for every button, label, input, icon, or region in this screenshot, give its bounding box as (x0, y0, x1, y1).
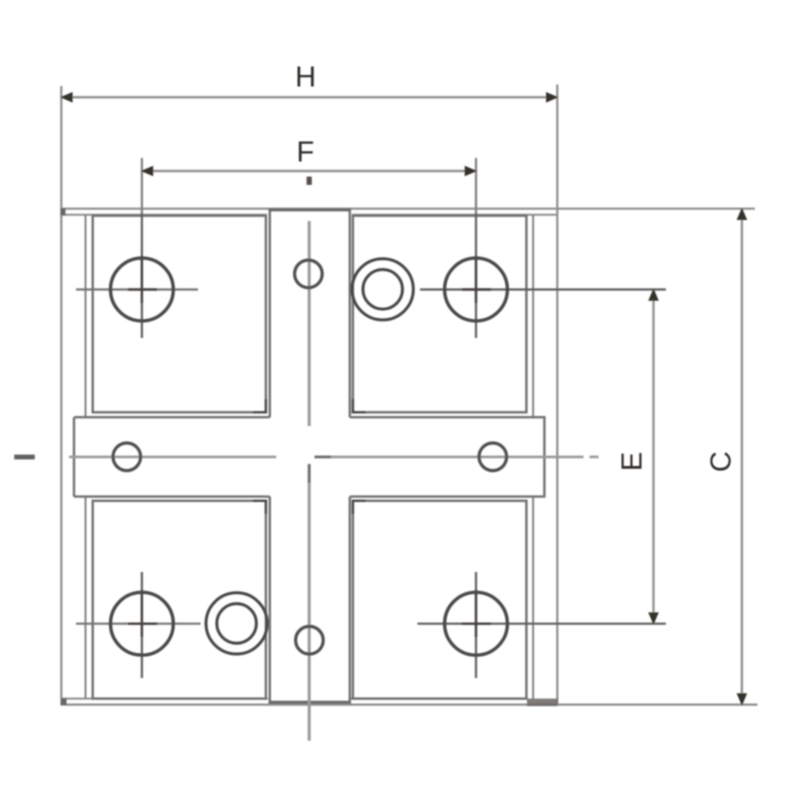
svg-text:E: E (617, 452, 649, 471)
centerline TL hole vertical (F ext) (141, 158, 143, 213)
centerline BR hole horizontal (E ext) (418, 623, 666, 625)
dimension C line (741, 209, 743, 705)
counterbore top (352, 259, 413, 320)
inner top edge lines (61, 215, 557, 699)
small circle strip left (113, 443, 141, 471)
centerline BL hole vertical (141, 572, 143, 678)
quadrant panel BL (93, 501, 266, 699)
strip horizontal centerline (69, 456, 599, 459)
centerline BL hole horizontal (76, 623, 201, 625)
svg-text:F: F (297, 137, 315, 169)
small circle strip bottom (296, 626, 324, 654)
dark elbows at panel corners near cross center (253, 399, 366, 514)
hole TR (445, 258, 508, 321)
centerline TL hole horizontal (76, 288, 198, 290)
counterbore bottom (206, 593, 267, 654)
label I (rotated) (14, 455, 35, 460)
small mark under F (307, 177, 312, 185)
centerline BR hole vertical (475, 572, 477, 678)
hole BR (445, 592, 508, 655)
svg-text:C: C (705, 451, 737, 472)
dark nubs at body corners (61, 699, 67, 706)
dimension F line (142, 170, 476, 173)
strip dark top/bottom caps (269, 210, 352, 702)
small circle strip right (479, 443, 507, 471)
quadrant panel TL (93, 216, 266, 413)
body outline (61, 85, 757, 705)
centerline TR hole horizontal (E ext) (420, 288, 666, 290)
dark center crosses on holes (128, 256, 491, 637)
hole BL (110, 592, 173, 655)
dimension H line (61, 96, 557, 99)
ear inner verticals (86, 215, 534, 699)
center cross strips (74, 210, 544, 702)
dimension E line (652, 290, 654, 624)
svg-text:H: H (295, 62, 316, 94)
small circle strip top (295, 260, 323, 288)
quadrant panel BR (353, 501, 527, 699)
quadrant panel TR (353, 216, 527, 413)
centerline TR hole vertical (F ext) (475, 158, 477, 213)
hole TL (110, 258, 173, 321)
strip vertical centerline (308, 221, 311, 741)
